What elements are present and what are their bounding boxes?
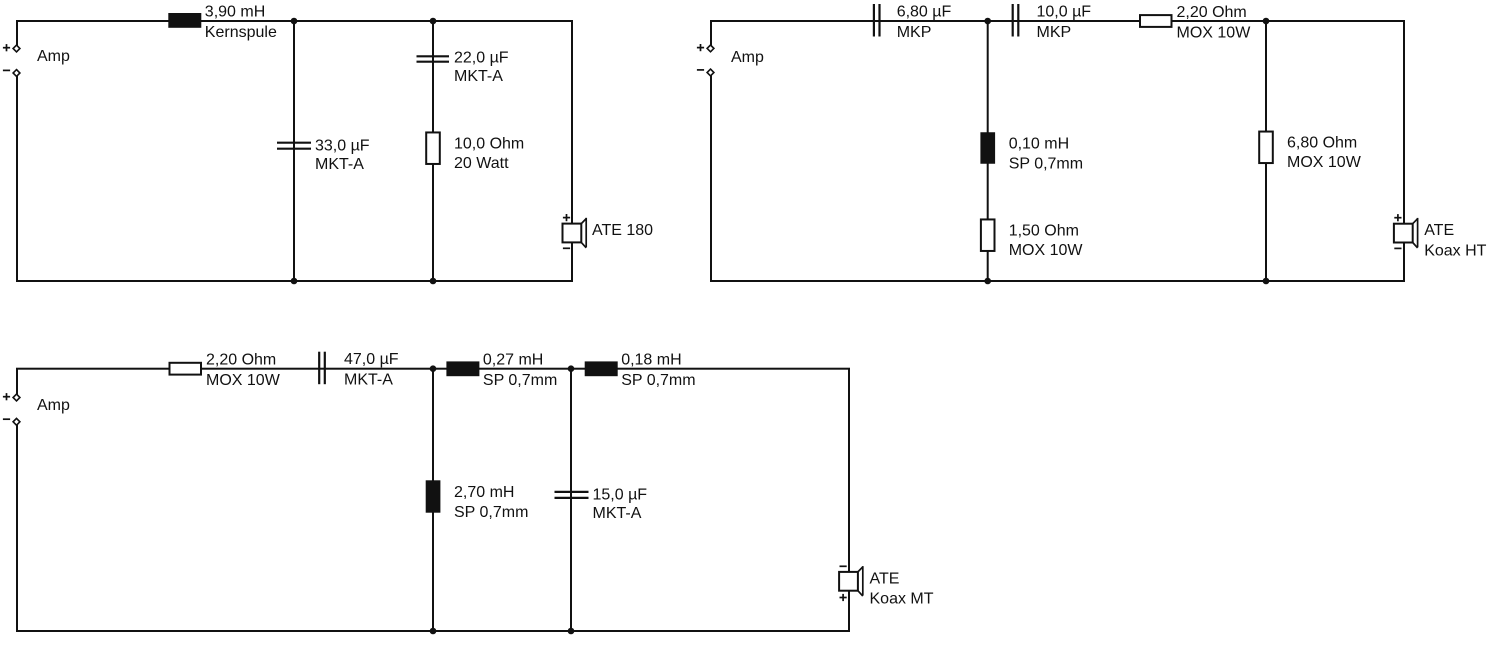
svg-text:ATE: ATE <box>870 570 900 587</box>
svg-text:10,0 Ohm: 10,0 Ohm <box>454 136 524 153</box>
svg-text:0,27 mH: 0,27 mH <box>483 352 543 369</box>
svg-text:Amp: Amp <box>37 397 70 414</box>
svg-text:Koax HT: Koax HT <box>1424 242 1486 259</box>
svg-text:MKP: MKP <box>897 24 932 41</box>
svg-text:SP 0,7mm: SP 0,7mm <box>1009 156 1083 173</box>
svg-text:SP 0,7mm: SP 0,7mm <box>621 372 695 389</box>
svg-text:6,80 µF: 6,80 µF <box>897 4 952 21</box>
svg-text:MOX 10W: MOX 10W <box>1009 242 1084 259</box>
svg-text:0,18 mH: 0,18 mH <box>621 352 681 369</box>
svg-text:2,70 mH: 2,70 mH <box>454 484 514 501</box>
svg-text:MKT-A: MKT-A <box>344 372 393 389</box>
svg-text:22,0 µF: 22,0 µF <box>454 50 509 67</box>
svg-text:Amp: Amp <box>731 49 764 66</box>
svg-text:33,0 µF: 33,0 µF <box>315 137 370 154</box>
svg-text:MKT-A: MKT-A <box>315 156 364 173</box>
svg-text:15,0 µF: 15,0 µF <box>593 487 648 504</box>
svg-text:Kernspule: Kernspule <box>205 24 277 41</box>
svg-text:MKP: MKP <box>1037 24 1072 41</box>
svg-text:20 Watt: 20 Watt <box>454 155 509 172</box>
svg-text:1,50 Ohm: 1,50 Ohm <box>1009 223 1079 240</box>
svg-text:MOX 10W: MOX 10W <box>1287 154 1362 171</box>
svg-text:6,80 Ohm: 6,80 Ohm <box>1287 135 1357 152</box>
svg-text:2,20 Ohm: 2,20 Ohm <box>206 352 276 369</box>
svg-text:ATE: ATE <box>1424 222 1454 239</box>
svg-text:MOX 10W: MOX 10W <box>206 372 281 389</box>
svg-text:MKT-A: MKT-A <box>454 68 503 85</box>
svg-text:MOX 10W: MOX 10W <box>1177 25 1252 42</box>
svg-text:3,90 mH: 3,90 mH <box>205 3 265 20</box>
svg-text:SP 0,7mm: SP 0,7mm <box>483 372 557 389</box>
svg-text:MKT-A: MKT-A <box>593 505 642 522</box>
svg-text:0,10 mH: 0,10 mH <box>1009 135 1069 152</box>
svg-text:Amp: Amp <box>37 48 70 65</box>
svg-text:47,0 µF: 47,0 µF <box>344 351 399 368</box>
svg-text:2,20 Ohm: 2,20 Ohm <box>1177 4 1247 21</box>
svg-text:Koax MT: Koax MT <box>870 591 934 608</box>
svg-text:10,0 µF: 10,0 µF <box>1037 4 1092 21</box>
svg-text:ATE 180: ATE 180 <box>592 222 653 239</box>
svg-text:SP 0,7mm: SP 0,7mm <box>454 504 528 521</box>
